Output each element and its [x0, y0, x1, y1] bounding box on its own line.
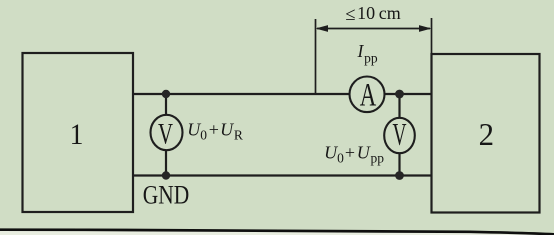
svg-text:≤10cm: ≤10cm	[345, 3, 400, 25]
svg-text:2: 2	[479, 116, 494, 152]
svg-text:A: A	[360, 78, 377, 114]
svg-text:1: 1	[70, 118, 84, 151]
svg-text:V: V	[158, 118, 173, 151]
svg-text:V: V	[393, 117, 407, 152]
svg-text:GND: GND	[143, 181, 190, 210]
